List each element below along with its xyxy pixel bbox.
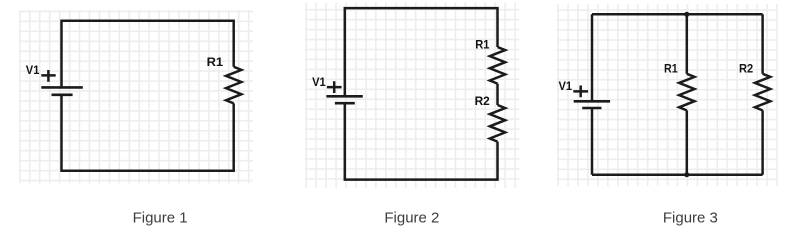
svg-text:Figure 2: Figure 2 [384, 211, 439, 227]
resistor R2 zigzag (fig2) [490, 105, 505, 142]
svg-text:R2: R2 [475, 94, 490, 108]
voltage source V1 negative plate (fig2) [335, 102, 355, 105]
svg-text:V1: V1 [26, 63, 40, 77]
resistor R2 zigzag (fig3) [755, 74, 770, 111]
node: top junction of parallel branches (fig3) [684, 12, 689, 17]
wire from V1 positive terminal up, across top, down to R1 top (fig1) [62, 21, 234, 88]
wire between R1 bottom and R2 top (fig2) [496, 84, 499, 105]
resistor R1 zigzag (fig2) [490, 47, 505, 84]
svg-text:Figure 1: Figure 1 [133, 211, 188, 227]
voltage source V1 positive plate (fig1) [41, 86, 83, 89]
wire right branch lower: R2 bottom to bottom rail (fig3) [761, 110, 764, 174]
polarity plus symbol of V1 (fig3) [573, 86, 588, 98]
voltage source V1 negative plate (fig3) [582, 107, 601, 110]
wire middle branch upper: top node to R1 top (fig3) [686, 14, 689, 74]
wire from V1 positive terminal up, across top, down to R1 top (fig2) [345, 8, 498, 96]
svg-text:V1: V1 [312, 75, 326, 89]
svg-text:R1: R1 [475, 37, 489, 51]
wire bottom rail (fig3) [592, 173, 763, 176]
resistor R1 zigzag (fig3) [679, 74, 694, 111]
wire from V1 positive terminal up to top rail (fig3) [591, 14, 594, 101]
voltage source V1 negative plate (fig1) [52, 94, 73, 97]
wire from R2 bottom, across bottom, up to V1 negative terminal (fig2) [345, 103, 498, 179]
svg-text:Figure 3: Figure 3 [663, 211, 718, 227]
svg-text:R1: R1 [207, 55, 224, 69]
node: bottom junction of parallel branches (fig3) [684, 172, 689, 177]
svg-text:V1: V1 [559, 79, 573, 93]
wire from bottom rail up to V1 negative terminal (fig3) [591, 108, 594, 175]
wire middle branch lower: R1 bottom to bottom node (fig3) [686, 110, 689, 174]
svg-text:R1: R1 [664, 61, 678, 75]
svg-text:R2: R2 [739, 61, 753, 75]
wire top rail (fig3) [592, 13, 763, 16]
resistor R1 zigzag (fig1) [226, 67, 241, 104]
polarity plus symbol of V1 (fig2) [327, 81, 342, 93]
wire from R1 bottom, across bottom, up to V1 negative terminal (fig1) [62, 95, 234, 171]
voltage source V1 positive plate (fig3) [574, 100, 610, 103]
polarity plus symbol of V1 (fig1) [41, 70, 55, 82]
wire right branch upper: top rail to R2 top (fig3) [761, 14, 764, 74]
voltage source V1 positive plate (fig2) [326, 95, 362, 98]
